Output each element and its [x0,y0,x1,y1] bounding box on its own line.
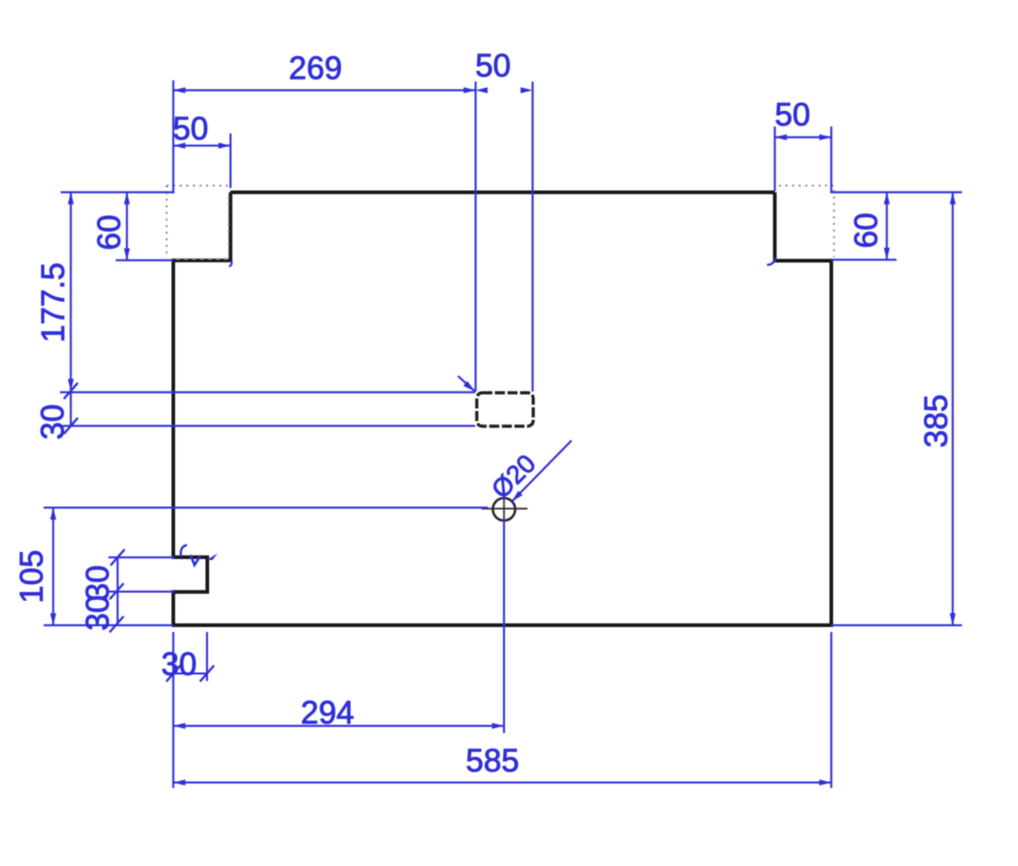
svg-text:105: 105 [13,550,49,603]
svg-text:60: 60 [848,213,884,249]
dimension 385 arrows [950,192,956,204]
part outline left edge lower [172,590,176,627]
dimension 585 line [173,782,831,784]
phantom dotted line top-left notch top [167,185,229,187]
stacked 30 ticks [111,549,125,565]
squiggle annotation TL notch corner [229,261,232,267]
dimension 105 arrows [50,508,56,520]
phantom dotted line top-left notch bottom [176,258,229,260]
dimension 177.5 line [70,192,72,391]
dimension 60 right arrows [884,192,890,204]
extension line y=192.3 right of part [830,191,962,193]
svg-text:50: 50 [475,48,511,84]
svg-text:294: 294 [301,695,354,731]
svg-text:30: 30 [161,646,197,682]
extension line y=260.3 TL notch bottom left [116,259,174,261]
dimension 177.5 tick bottom [64,383,78,399]
extension line y=425.9 (slot bottom level) [63,425,475,427]
svg-text:585: 585 [466,743,519,779]
svg-text:269: 269 [289,50,342,86]
bottom 30 ticks [166,666,180,682]
dimension 585 arrows [173,780,185,786]
svg-text:385: 385 [918,394,954,447]
top-left notch (50x60) solid edges [173,192,230,260]
extension line y=192.3 left of part [61,191,175,193]
extension line y=392.2 (slot top level) [60,391,475,393]
phantom dotted line top-left notch left [166,186,168,259]
dimension 30 stacked line [117,557,119,625]
dimension 50 top (slot width) arrows [476,87,488,93]
dimension 294 arrows [173,723,185,729]
part outline bottom edge [172,623,834,627]
dimension 50 TR arrows [775,134,787,140]
leader arrow to slot corner [458,376,475,391]
svg-text:50: 50 [173,111,209,147]
extension line x=774.8 (TR notch left) [774,127,776,192]
dimension 269 arrow right [464,87,476,93]
part outline left edge upper [172,259,176,559]
dimension 30 slot tick bottom [64,418,78,434]
dimension 105 line [52,508,54,626]
squiggle annotation near left notch arc [181,545,187,557]
phantom dotted line top-right notch right [833,190,835,257]
dimension 60 left line [126,192,128,260]
extension line y=557.4 (left notch top) [108,556,174,558]
dimension 294 line [173,725,504,727]
hole center mark vertical [503,496,505,530]
extension line x=504 below hole [503,520,505,734]
part outline right edge [829,259,833,627]
phantom dotted line top-left notch inner right [228,197,230,257]
dimension 269 line [173,89,475,91]
squiggle annotation near left notch vee [191,555,201,565]
extension line y=259.8 TR notch bottom right [831,259,896,261]
dimension 50 TL notch line [173,145,230,147]
phantom dotted line top-right notch top [779,185,833,187]
dimension 50 TR notch line [775,136,832,138]
svg-text:60: 60 [91,215,127,251]
extension line x=831.3 (right edge top) [830,127,832,193]
leader arrow D20 [512,491,523,502]
dimension 30 bottom (notch depth) line [173,673,207,675]
squiggle annotation near left notch flag [207,553,218,560]
dimension 30 slot-height line [70,392,72,426]
dimension 50 TL arrows [173,143,185,149]
hole circle D20 [493,498,515,520]
extension line y=625.2 right of part [831,624,962,626]
dimension 269 arrow left [173,87,185,93]
slot 50x30 dashed rectangle [477,393,533,426]
svg-text:30: 30 [35,404,71,440]
dimension 177.5 arrows [68,192,74,204]
extension line y=592 (left notch bottom) [108,591,174,593]
dimension 60 left arrows [124,192,130,204]
part outline top edge [231,191,775,195]
leader line D20 [512,441,572,502]
extension line x=230.5 (TL notch right) [230,134,232,189]
svg-text:30: 30 [80,595,116,631]
extension line x=475.6 (slot left, from 269/50 dims) [475,82,477,392]
squiggle annotation TR notch corner [767,259,776,265]
dimension 60 right line [886,192,888,259]
extension line x=532.6 (slot right) [532,82,534,392]
extension line x=207 below part (left notch depth) [206,632,208,681]
extension line x=831.3 below part [830,632,832,788]
dimension 385 line [952,192,954,625]
extension line x=173.3 below part [172,632,174,788]
hole center mark horizontal [482,508,528,510]
extension line y=625.2 left of part [44,624,174,626]
top-right notch (50x60) solid edges [775,192,832,260]
extension line left x=173 top [172,80,174,193]
left-edge notch (30x30) [173,557,207,592]
extension line y=507.6 (hole center level) [44,507,488,509]
svg-text:50: 50 [775,97,811,133]
svg-text:177.5: 177.5 [35,262,71,342]
